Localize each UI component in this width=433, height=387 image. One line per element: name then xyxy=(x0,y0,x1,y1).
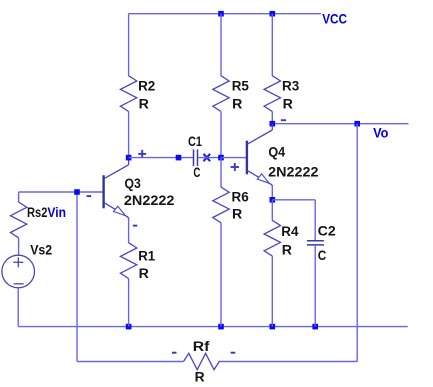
resistor Rs2 xyxy=(10,202,26,238)
junction at Q4 emitter / R4 / C2 xyxy=(270,197,276,203)
svg-text:R6: R6 xyxy=(232,189,250,204)
wire: Rf line right segment xyxy=(219,361,358,363)
wire: R1 bottom to rail xyxy=(128,279,130,327)
wire: Rf line left segment xyxy=(77,361,184,363)
marker X right of C1 xyxy=(204,154,211,161)
junction on VCC rail above R3 xyxy=(270,11,276,17)
wire: Q3 collector node to C1 xyxy=(129,157,193,159)
wire: node to Q4 base xyxy=(221,157,247,159)
wire: Rs2 bottom lead to Vs2 xyxy=(18,238,20,255)
svg-text:R1: R1 xyxy=(138,249,155,264)
resistor R1 xyxy=(120,243,136,279)
wire: R4 top lead xyxy=(271,200,273,221)
svg-text:Rf: Rf xyxy=(193,339,210,354)
svg-text:R: R xyxy=(139,97,149,112)
svg-text:Vs2: Vs2 xyxy=(30,243,52,258)
marker minus left of Rf xyxy=(172,352,177,354)
wire: bottom rail xyxy=(18,326,408,328)
wire: R3 bottom to Vo node xyxy=(271,112,273,124)
svg-text:R: R xyxy=(232,206,242,221)
junction bottom rail at R4 xyxy=(270,324,276,330)
svg-text:R3: R3 xyxy=(282,79,300,94)
transistor Q4 xyxy=(247,124,272,187)
transistor Q3 xyxy=(104,158,129,220)
junction at C1 / R5 / R6 node xyxy=(218,155,224,161)
svg-text:Vo: Vo xyxy=(373,125,388,140)
marker minus right of Rf xyxy=(231,352,236,354)
wire: VCC rail to R5 top xyxy=(220,14,222,76)
junction bottom rail at R6 xyxy=(218,324,224,330)
svg-text:Rs2: Rs2 xyxy=(27,205,47,220)
junction bottom rail at C2 xyxy=(312,324,318,330)
wire: Vin horizontal to Q3 base xyxy=(19,191,104,193)
junction at Vin node xyxy=(74,189,80,195)
resistor R6 xyxy=(213,187,229,223)
wire: R5 bottom to C1 node xyxy=(220,112,222,158)
svg-text:Q3: Q3 xyxy=(125,176,142,191)
wire: C2 bottom to rail xyxy=(314,245,316,327)
svg-text:R2: R2 xyxy=(138,79,155,94)
svg-text:R: R xyxy=(283,97,293,112)
wire: VCC top rail xyxy=(129,13,321,15)
resistor R3 xyxy=(264,76,280,112)
svg-text:Vin: Vin xyxy=(47,205,66,220)
resistor Rf (horizontal) xyxy=(184,353,220,369)
svg-text:R: R xyxy=(195,370,205,385)
wire: VCC rail to R3 top xyxy=(271,14,273,76)
resistor R2 xyxy=(120,76,136,112)
marker plus at Q4 base xyxy=(231,163,239,171)
wire: R2 bottom to Q3 collector node xyxy=(128,112,130,158)
wire: emitter node to C2 horizontal xyxy=(272,199,315,201)
junction at Vo feedback tap xyxy=(354,121,360,127)
svg-text:C: C xyxy=(318,248,327,263)
wire: R4 bottom to rail xyxy=(271,256,273,327)
junction bottom rail at R1 xyxy=(126,324,132,330)
svg-text:VCC: VCC xyxy=(322,12,347,27)
svg-text:R5: R5 xyxy=(232,79,250,94)
junction on VCC rail above R5 xyxy=(218,11,224,17)
marker minus at Vo node xyxy=(281,119,286,121)
wire: Vo output rail xyxy=(272,123,408,125)
svg-text:R: R xyxy=(139,266,149,281)
voltage source Vs2 xyxy=(2,255,35,288)
wire: Vs2 bottom to ground rail xyxy=(17,288,19,327)
svg-text:Q4: Q4 xyxy=(268,145,285,160)
capacitor C1 xyxy=(194,149,198,166)
svg-text:C1: C1 xyxy=(188,134,202,149)
svg-text:R: R xyxy=(232,97,242,112)
capacitor C2 xyxy=(307,241,324,245)
junction wire end at C1 left pin xyxy=(176,155,182,161)
svg-text:C2: C2 xyxy=(318,224,336,239)
marker minus at Q3 base xyxy=(87,195,92,197)
svg-text:2N2222: 2N2222 xyxy=(268,164,318,179)
junction at R3 / Q4 collector xyxy=(270,121,276,127)
svg-text:2N2222: 2N2222 xyxy=(124,193,175,208)
svg-text:C: C xyxy=(193,165,200,180)
wire: feedback right vertical xyxy=(356,124,358,362)
wire: Q4 emitter to node xyxy=(271,186,273,200)
svg-text:R: R xyxy=(282,242,292,257)
wire: Q3 emitter to R1 xyxy=(128,218,130,243)
wire: C1 right pin to node xyxy=(198,157,222,159)
wire: feedback left vertical to Vin node xyxy=(76,192,78,362)
wire: VCC rail to R2 top xyxy=(128,14,130,76)
wire: R6 top lead xyxy=(220,158,222,188)
wire: C2 top lead vertical xyxy=(314,200,316,241)
resistor R4 xyxy=(264,220,280,256)
wire: R6 bottom to rail xyxy=(220,223,222,327)
svg-text:R4: R4 xyxy=(281,224,299,239)
marker minus at Q3 emitter xyxy=(133,225,138,227)
marker plus left of C1 xyxy=(138,150,146,158)
resistor R5 xyxy=(213,76,229,112)
junction at Q3 collector xyxy=(126,155,132,161)
wire: Rs2 top lead xyxy=(18,192,20,202)
